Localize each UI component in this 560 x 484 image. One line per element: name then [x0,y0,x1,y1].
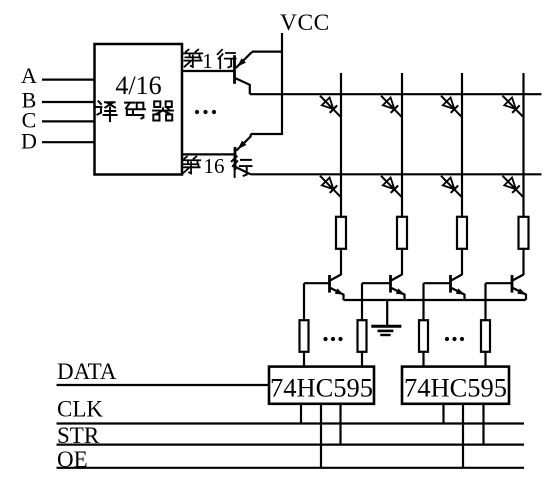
wire row 1 line [250,93,542,95]
LED D8 row16 col4 [503,176,524,197]
resistor R4 (column 4 limit) [519,217,529,249]
wire input D [42,141,95,143]
transistor Q2 base bar [234,147,237,170]
wire input C [42,120,95,122]
label 第16行 char 第 [182,157,200,174]
wire Q4 base from resistor node [362,282,391,284]
resistor R2 (column 2 limit) [397,217,407,249]
wire Q5 base from resistor node [424,282,451,284]
svg-text:A: A [21,63,37,88]
ground bar 3 [380,334,390,336]
LED D6 row16 col2 [381,176,402,197]
wire Q6 base from resistor node [486,282,513,284]
transistor Q4 collector [391,275,402,281]
transistor Q2 emitter to VCC [236,134,250,151]
wire DATA bus to U2 [57,384,270,386]
LED D1 row1 col1 [320,96,341,117]
wire emitter common rail [344,299,526,301]
wire decoder row1 output to Q1 base [182,70,235,72]
transistor Q3 emitter [331,288,344,300]
wire VCC vertical rail [281,33,283,135]
wire U2 CLK pin [300,404,302,424]
wire column 4 vertical [522,73,524,217]
label 第1行 char 第 [184,50,202,67]
transistor Q2 collector [236,167,251,174]
LED D5 row16 col1 [320,176,341,197]
wire decoder row16 output to Q2 base [182,153,235,155]
transistor Q5 base bar [449,275,452,293]
svg-text:4/16: 4/16 [115,71,161,100]
wire Q3 base from resistor node [304,282,330,284]
ellipsis between row labels [195,110,216,114]
wire STR bus [57,444,525,446]
transistor Q6 collector [513,275,524,281]
wire column 1 vertical [340,73,342,217]
transistor Q4 emitter arrow (NPN) [396,288,405,294]
svg-text:CLK: CLK [57,397,103,422]
transistor Q3 collector [330,275,341,281]
transistor Q2 emitter arrow (PNP) [238,141,247,150]
transistor Q6 emitter arrow (NPN) [517,288,526,294]
wire base node down to R6 [361,283,363,320]
transistor Q5 emitter [452,288,465,300]
wire U3 OE pin [462,404,464,468]
resistor R6 (base series) [358,320,367,352]
transistor Q1 collector [236,78,250,94]
wire U2 OE pin [320,404,322,468]
ground stem [386,300,388,326]
decoder label char 器 [153,101,173,120]
resistor R5 (base series) [300,320,309,352]
wire input A [42,78,95,80]
wire R3 to Q5 collector [461,249,463,275]
label 第16行 char 行 [232,156,252,176]
shift register U3 box [402,367,509,404]
4/16 decoder U1 box [95,44,183,175]
transistor Q3 emitter arrow (NPN) [335,288,344,294]
svg-text:74HC595: 74HC595 [404,373,507,403]
wire R1 to Q3 collector [340,249,342,275]
transistor Q4 base bar [389,275,392,293]
LED D3 row1 col3 [441,96,462,117]
ground bar 1 [371,325,401,328]
wire input B [42,101,95,103]
resistor R1 (column 1 limit) [336,217,346,249]
wire R5 to 74HC595 output [303,352,305,367]
wire column 3 vertical [461,73,463,217]
LED D2 row1 col2 [381,96,402,117]
LED D7 row16 col3 [441,176,462,197]
LED D4 row1 col4 [503,96,524,117]
transistor Q1 emitter arrow (PNP) [237,58,246,67]
svg-text:1: 1 [202,49,213,73]
transistor Q1 base bar [233,55,236,84]
wire R6 to 74HC595 output [361,352,363,367]
decoder label char 译 [97,101,117,121]
resistor R3 (column 3 limit) [457,217,467,249]
wire base node down to R5 [303,283,305,320]
transistor Q3 base bar [328,275,331,293]
svg-text:D: D [21,128,37,153]
transistor Q5 emitter arrow (NPN) [456,288,465,294]
wire OE bus [57,467,525,469]
label 第1行 char 行 [218,50,236,69]
transistor Q6 base bar [511,275,514,293]
resistor R8 (base series) [481,320,490,352]
ground bar 2 [378,330,394,333]
wire R7 to 74HC595 output [422,352,424,367]
wire CLK bus [57,422,525,424]
wire row 16 line [251,173,542,175]
wire base node down to R8 [484,283,486,320]
wire column 2 vertical [401,73,403,217]
wire R2 to Q4 collector [401,249,403,275]
resistor R7 (base series) [419,320,428,352]
wire U2 STR pin [339,404,341,445]
shift register U2 box [269,367,374,404]
ellipsis between R7 and R8 [445,337,464,341]
transistor Q1 emitter to VCC [236,52,252,68]
decoder label char 码 [125,103,145,119]
svg-text:74HC595: 74HC595 [270,373,373,403]
wire U3 CLK pin [442,404,444,424]
svg-text:VCC: VCC [280,10,330,36]
svg-text:DATA: DATA [57,359,117,384]
ellipsis between R5 and R6 [323,337,342,341]
transistor Q4 emitter [392,288,405,300]
transistor Q6 emitter [513,288,526,300]
wire base node down to R7 [422,283,424,320]
wire U3 STR pin [482,404,484,445]
transistor Q5 collector [451,275,462,281]
wire R4 to Q6 collector [522,249,524,275]
svg-text:16: 16 [204,154,225,178]
wire R8 to 74HC595 output [484,352,486,367]
